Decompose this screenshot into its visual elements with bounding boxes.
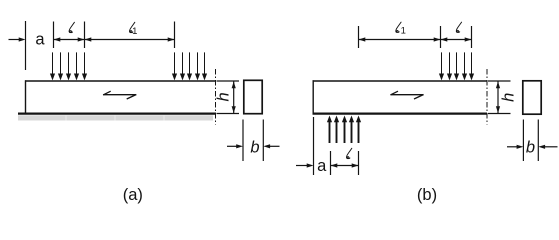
svg-text:1: 1 [401,26,406,37]
svg-text:h: h [499,93,517,102]
svg-text:(a): (a) [123,186,143,204]
svg-text:b: b [526,139,535,157]
svg-text:a: a [317,157,327,175]
svg-text:b: b [250,139,259,157]
svg-text:h: h [215,92,233,101]
svg-text:(b): (b) [417,186,437,204]
svg-text:1: 1 [132,26,137,37]
svg-text:a: a [35,31,45,49]
